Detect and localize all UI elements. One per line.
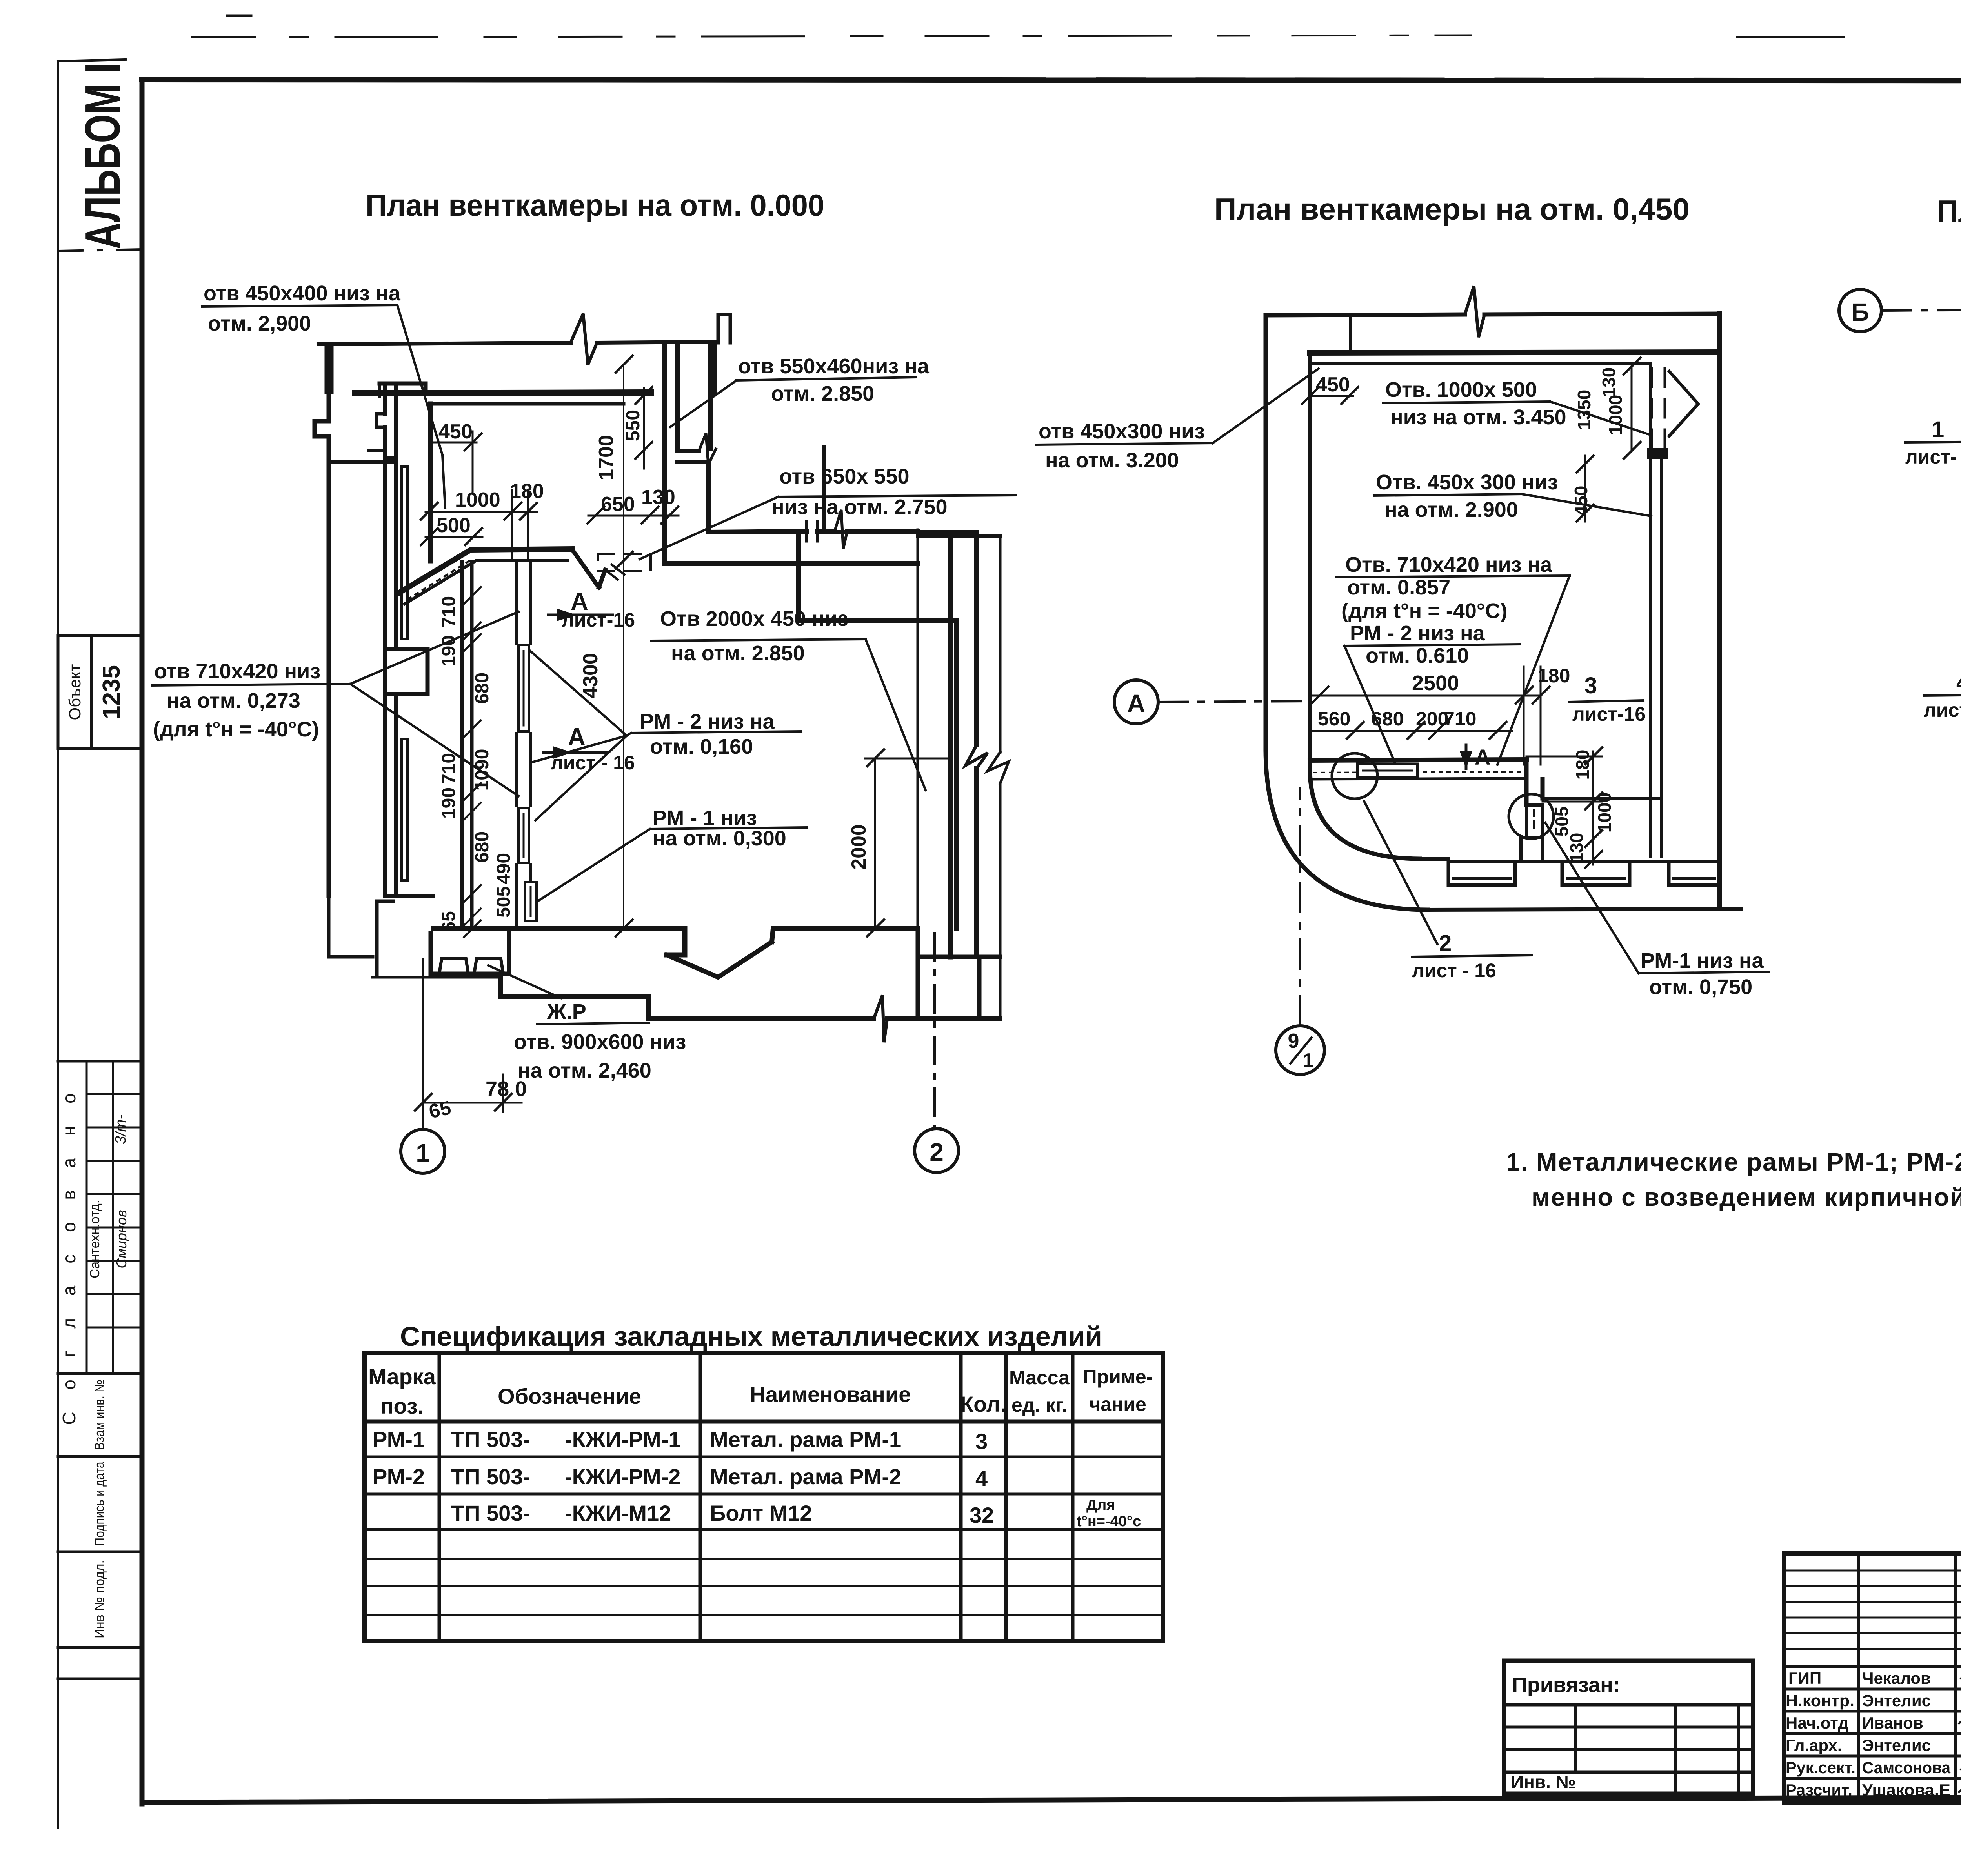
label 3 list-16 (1570, 673, 1646, 725)
vzam inv cell (58, 1455, 142, 1458)
svg-text:План венткамеры на отм. ~3,600: План венткамеры на отм. ~3,600 (1937, 194, 1961, 228)
svg-text:710: 710 (1444, 708, 1476, 730)
top wall inner face (1310, 363, 1650, 364)
bottom band lines (1420, 859, 1741, 910)
svg-text:Марка: Марка (368, 1364, 436, 1389)
svg-text:РМ-1: РМ-1 (373, 1427, 425, 1452)
grid circle 1 (401, 1129, 445, 1173)
plan 2: Plan ventkamery na otm. 0,450 (1037, 192, 1769, 1074)
grid circle A (1114, 680, 1158, 724)
detail circle 1 (1509, 794, 1554, 839)
svg-text:Масса: Масса (1009, 1367, 1070, 1389)
svg-text:А: А (1475, 745, 1490, 769)
svg-text:4: 4 (1956, 670, 1961, 695)
svg-text:1700: 1700 (595, 435, 618, 480)
signature table box (1784, 1553, 1961, 1802)
svg-text:500: 500 (437, 514, 471, 537)
upper right room top wall (678, 462, 708, 530)
svg-text:560: 560 (1318, 708, 1350, 730)
svg-text:РМ - 1 низ: РМ - 1 низ (653, 806, 757, 830)
svg-text:лист-16: лист-16 (562, 609, 635, 631)
left wall notch (377, 414, 385, 427)
svg-text:1090: 1090 (472, 749, 493, 791)
spec headers (368, 1364, 1153, 1418)
spec row 2 (373, 1464, 988, 1491)
svg-text:Спецификация закладных металли: Спецификация закладных металлических изд… (400, 1321, 1102, 1352)
top wall left end verticals (326, 344, 332, 393)
svg-text:отм. 2.850: отм. 2.850 (771, 382, 874, 405)
vertical dims right of detail (1526, 747, 1615, 868)
pilaster 3 (1669, 862, 1719, 885)
svg-text:3: 3 (975, 1429, 988, 1454)
long wall y1355 (708, 531, 918, 532)
svg-text:450: 450 (438, 420, 473, 443)
dim 780 (415, 1074, 527, 1123)
left margin stamps (58, 60, 142, 1679)
pilaster 1 (1448, 862, 1515, 885)
right wall outer thin line (999, 536, 1002, 1019)
upper right wall foot (678, 449, 699, 453)
svg-text:ТП 503-: ТП 503- (451, 1427, 530, 1452)
grid line 2 dashdot (933, 933, 936, 1129)
outer left sheet edge line (57, 63, 59, 1827)
flag triangle (1669, 371, 1698, 436)
grid circle B (1839, 289, 1881, 332)
svg-text:9: 9 (1288, 1030, 1299, 1053)
label otv 1000x500 (1383, 378, 1649, 434)
bottom left arc inner (1310, 769, 1420, 859)
svg-text:78 0: 78 0 (486, 1077, 527, 1101)
wall fold right of shelf (572, 549, 605, 587)
left wall window strip lower (402, 739, 407, 880)
svg-text:на отм. 2.900: на отм. 2.900 (1384, 498, 1518, 522)
svg-text:лист - 16: лист - 16 (551, 752, 635, 774)
zh r grille 1 (439, 959, 468, 974)
svg-text:ед. кг.: ед. кг. (1011, 1394, 1067, 1416)
right wall top cap (918, 534, 1000, 538)
top wall inner thick (1310, 352, 1719, 353)
svg-text:Самсонова: Самсонова (1862, 1758, 1951, 1777)
svg-text:отм. 0,160: отм. 0,160 (650, 735, 753, 758)
bottom left wall block (431, 933, 509, 974)
signature columns (1857, 1553, 1860, 1802)
dim 450 top left (1302, 373, 1358, 404)
svg-text:1235: 1235 (98, 665, 125, 719)
label otv 2000x450 (651, 607, 926, 790)
shelf hatch dots (408, 559, 473, 599)
label ZH R (488, 965, 686, 1082)
svg-text:680: 680 (472, 831, 493, 863)
svg-text:Иванов: Иванов (1862, 1714, 1923, 1732)
label RM-2 (1344, 622, 1520, 764)
label otv 710x420 (1336, 553, 1570, 765)
joint ticks on long wall (806, 522, 817, 541)
svg-text:лист-16: лист-16 (1572, 703, 1646, 725)
break on right wall (966, 745, 988, 769)
frame RM-2 plan detail (1357, 764, 1417, 777)
right inner wall lower (1543, 797, 1661, 800)
svg-text:поз.: поз. (380, 1394, 424, 1418)
svg-text:отв 710х420 низ: отв 710х420 низ (154, 660, 320, 683)
spec row 3 (451, 1497, 1141, 1530)
dim 650 130 (588, 486, 679, 524)
signature name rows (1784, 1667, 1961, 1778)
signature roles (1786, 1669, 1855, 1799)
top right dashed opening (1652, 369, 1665, 448)
svg-text:Инв. №: Инв. № (1511, 1772, 1576, 1792)
plan 1: Plan ventkamery na otm. 0.000 (152, 188, 1016, 1173)
bottom left arc outer (1266, 749, 1428, 910)
svg-text:710: 710 (438, 596, 459, 627)
svg-text:отв. 900х600 низ: отв. 900х600 низ (514, 1030, 686, 1054)
label otv 650x550 (640, 465, 1016, 559)
label 4 list-16 (1924, 670, 1961, 721)
svg-text:Взам инв. №: Взам инв. № (92, 1380, 107, 1450)
right wall inner face (917, 530, 919, 929)
svg-text:на отм. 0,300: на отм. 0,300 (653, 827, 786, 850)
svg-text:(для t°н = -40°С): (для t°н = -40°С) (153, 718, 319, 741)
label otv 450x300 left (1037, 369, 1319, 472)
svg-text:ГИП: ГИП (1788, 1669, 1821, 1687)
svg-text:Энтелис: Энтелис (1862, 1736, 1931, 1754)
svg-text:Кол.: Кол. (960, 1392, 1006, 1416)
column below frames (1521, 837, 1543, 862)
signature table small rows (1784, 1571, 1961, 1649)
dim 1000 180 (421, 480, 544, 561)
left wall window strip upper (402, 467, 407, 639)
shaft right wall segments (516, 561, 530, 643)
top wall lower face (431, 402, 624, 406)
svg-text:План венткамеры на отм. 0.000: План венткамеры на отм. 0.000 (366, 188, 824, 222)
door notch V (667, 929, 918, 977)
grid circle 9/1 (1276, 1026, 1324, 1074)
svg-text:1: 1 (1932, 417, 1944, 442)
left wall pilaster block (385, 649, 427, 694)
dim line 550 (643, 388, 645, 469)
break on duct foot (699, 433, 716, 465)
bottom long line (648, 1016, 1000, 1021)
dim 500 (421, 514, 482, 545)
svg-text:Отв. 710х420 низ на: Отв. 710х420 низ на (1345, 553, 1552, 576)
break on right wall (988, 752, 1009, 783)
svg-text:РМ - 2 низ на: РМ - 2 низ на (1350, 622, 1485, 645)
svg-text:отв 450х300 низ: отв 450х300 низ (1039, 420, 1205, 443)
dims 560 680 200 710 (1310, 708, 1512, 739)
spec header bottom line (365, 1420, 1163, 1424)
break on long wall (835, 510, 847, 549)
svg-text:лист- 16: лист- 16 (1924, 699, 1961, 721)
left wall foundation corner (377, 901, 393, 976)
svg-text:Обозначение: Обозначение (498, 1384, 641, 1409)
grid line 1 vertical (422, 960, 424, 1130)
note text (1506, 1148, 1961, 1211)
label otv 450x300 right (1374, 471, 1651, 522)
svg-text:Приме-: Приме- (1083, 1366, 1153, 1388)
svg-text:130: 130 (641, 486, 675, 509)
thin outer face line (373, 976, 500, 979)
label otv 450x400 (202, 282, 445, 508)
svg-text:4300: 4300 (579, 653, 602, 698)
svg-text:АЛЬБОМ I: АЛЬБОМ I (75, 63, 130, 249)
bottom right wall pieces (918, 929, 1000, 1019)
top right vertical dims (1571, 358, 1641, 522)
long wall lower face y1437 (665, 561, 918, 566)
svg-text:505: 505 (1552, 807, 1572, 837)
spec row 1 (373, 1427, 988, 1454)
svg-text:на отм. 2,460: на отм. 2,460 (518, 1059, 651, 1082)
svg-text:Гл.арх.: Гл.арх. (1786, 1736, 1842, 1754)
svg-text:1000: 1000 (1594, 793, 1615, 833)
svg-text:А: А (1127, 689, 1145, 718)
svg-text:РМ-1 низ на: РМ-1 низ на (1641, 949, 1764, 973)
svg-text:отм. 0,750: отм. 0,750 (1649, 975, 1752, 999)
signature squiggles (1959, 1667, 1961, 1794)
label RM-2 (530, 651, 801, 820)
svg-text:А: А (568, 723, 586, 751)
room left wall vertical (428, 404, 433, 561)
right wall outer (1717, 314, 1722, 907)
svg-text:лист - 16: лист - 16 (1412, 960, 1496, 982)
upper right wall vertical band (665, 343, 710, 562)
privyazan table (1504, 1661, 1753, 1794)
svg-text:130: 130 (1566, 833, 1587, 863)
soglasovano stamp area (58, 1060, 142, 1063)
right room vertical walls (956, 532, 977, 953)
rotated dims column a (438, 596, 514, 932)
svg-text:1: 1 (416, 1139, 430, 1167)
svg-text:650: 650 (601, 493, 635, 516)
shaft left wall (462, 562, 472, 929)
shaft inner dim line (471, 588, 473, 929)
left wall outer face far (315, 344, 329, 896)
tick on left edge top (227, 15, 251, 17)
svg-text:-КЖИ-РМ-1: -КЖИ-РМ-1 (565, 1427, 680, 1452)
top torn paper dashed line (192, 35, 1471, 37)
bottom wall of room (433, 929, 685, 955)
svg-text:490: 490 (493, 853, 514, 884)
svg-text:лист- 16: лист- 16 (1905, 446, 1961, 468)
svg-text:Метал. рама РМ-1: Метал. рама РМ-1 (710, 1427, 901, 1452)
svg-text:РМ-2: РМ-2 (373, 1464, 425, 1489)
label otv 550x460 (670, 354, 930, 427)
spec outer box (365, 1353, 1163, 1641)
top wall outer line (318, 342, 718, 344)
left wall outer face (383, 384, 387, 896)
svg-text:550: 550 (623, 410, 644, 441)
svg-text:на отм. 0,273: на отм. 0,273 (167, 689, 300, 713)
svg-text:Ушакова.Е: Ушакова.Е (1862, 1781, 1950, 1799)
svg-text:-КЖИ-М12: -КЖИ-М12 (565, 1501, 671, 1525)
svg-text:низ на отм. 3.450: низ на отм. 3.450 (1390, 405, 1566, 429)
bottom outer step (500, 977, 648, 1019)
svg-text:Для: Для (1086, 1497, 1115, 1513)
frame bottom border (142, 1796, 1961, 1802)
svg-text:чание: чание (1089, 1393, 1146, 1415)
svg-text:190: 190 (438, 787, 459, 819)
svg-text:Привязан:: Привязан: (1512, 1673, 1620, 1697)
svg-text:Отв. 1000х 500: Отв. 1000х 500 (1385, 378, 1537, 402)
center vertical dim line (623, 365, 624, 929)
right room walls (799, 532, 977, 620)
frame RM-2 upper in shaft (518, 645, 529, 731)
svg-text:отв 550х460низ на: отв 550х460низ на (738, 354, 930, 378)
svg-text:ТП 503-: ТП 503- (451, 1464, 530, 1489)
frame RM-1 plan detail (1526, 805, 1543, 837)
joint tick top wall (1349, 315, 1352, 353)
svg-text:менно с возведением кирпичной: менно с возведением кирпичной кладки. (1532, 1183, 1961, 1211)
detail circle 2 (1332, 753, 1377, 799)
svg-text:Б: Б (1851, 298, 1869, 326)
svg-text:680: 680 (1371, 708, 1404, 730)
dim 450 (431, 420, 482, 494)
left wall upper tick (369, 384, 385, 450)
svg-text:180: 180 (1537, 665, 1570, 687)
shaft dim ticks (464, 587, 481, 937)
top wall right end cap (713, 343, 717, 393)
frame RM-1 bottom in shaft (525, 882, 537, 921)
right wall main line (948, 536, 953, 957)
fold hatch (605, 565, 624, 580)
svg-text:Отв. 450х 300 низ: Отв. 450х 300 низ (1376, 471, 1558, 494)
plan 3: Plan ventkamery na otm. -3,600 (1839, 194, 1961, 983)
svg-text:отв 650х 550: отв 650х 550 (779, 465, 910, 488)
dashed opening 650x550 (598, 554, 651, 571)
svg-text:1. Металлические рамы РМ-1; РМ: 1. Металлические рамы РМ-1; РМ-2 устанав… (1506, 1148, 1961, 1176)
signature names (1862, 1669, 1951, 1799)
inv no podl cell (58, 1646, 142, 1649)
label RM-1 (537, 806, 807, 902)
svg-text:на отм. 2.850: на отм. 2.850 (671, 642, 805, 665)
svg-text:32: 32 (970, 1503, 994, 1527)
shelf wall diagonal (399, 549, 572, 593)
svg-text:2: 2 (1439, 931, 1452, 956)
svg-text:1000: 1000 (1605, 395, 1626, 435)
break symbol top wall (571, 314, 597, 365)
grid circle 2 (915, 1129, 959, 1172)
svg-text:отм. 2,900: отм. 2,900 (208, 312, 311, 335)
break bottom (874, 995, 887, 1042)
right inner channel (1650, 363, 1661, 857)
svg-text:Смирнов: Смирнов (113, 1210, 129, 1268)
top wall inner line (355, 393, 651, 393)
svg-text:Метал. рама РМ-2: Метал. рама РМ-2 (710, 1464, 901, 1489)
svg-text:2: 2 (930, 1138, 944, 1166)
svg-text:65: 65 (427, 1096, 453, 1122)
object 1235 stamp box (58, 636, 142, 749)
inner bottom wall (1310, 760, 1526, 760)
svg-text:t°н=-40°с: t°н=-40°с (1077, 1513, 1141, 1530)
svg-text:1350: 1350 (1574, 390, 1594, 430)
svg-text:Наименование: Наименование (750, 1382, 911, 1407)
svg-text:Подпись и дата: Подпись и дата (92, 1462, 107, 1546)
svg-text:Энтелис: Энтелис (1862, 1691, 1931, 1710)
svg-text:180: 180 (1572, 750, 1593, 780)
label RM-1 bottom (1545, 823, 1769, 999)
section mark A lower (544, 723, 635, 774)
svg-text:-КЖИ-РМ-2: -КЖИ-РМ-2 (565, 1464, 680, 1489)
dim 2000 vertical (848, 749, 950, 936)
svg-text:Болт М12: Болт М12 (710, 1501, 812, 1525)
left wall inner (1308, 353, 1312, 769)
left exterior wall top cap (380, 384, 426, 393)
label otv 710x420 left (152, 612, 518, 796)
svg-text:низ на отм. 2.750: низ на отм. 2.750 (771, 495, 947, 519)
svg-text:отв 450х400 низ на: отв 450х400 низ на (204, 282, 401, 305)
svg-text:Нач.отд: Нач.отд (1786, 1714, 1848, 1732)
top wall outer line (1266, 314, 1719, 315)
spec column lines (438, 1353, 441, 1641)
specification table (365, 1321, 1163, 1641)
left wall outer (1264, 315, 1268, 749)
section A arrow small (1460, 745, 1490, 769)
svg-text:отм. 0.610: отм. 0.610 (1366, 644, 1469, 667)
spec row lines (365, 1456, 1163, 1458)
svg-text:Объект: Объект (65, 664, 84, 720)
svg-text:2500: 2500 (1412, 671, 1459, 695)
svg-text:Ж.Р: Ж.Р (547, 1000, 586, 1023)
label 2 list-16 (1364, 801, 1532, 982)
svg-text:Разсчит.: Разсчит. (1786, 1781, 1852, 1799)
svg-text:190: 190 (438, 635, 459, 667)
section mark A upper (548, 588, 635, 631)
podpis i data cell (58, 1551, 142, 1553)
svg-text:ТП 503-: ТП 503- (451, 1501, 530, 1525)
svg-text:680: 680 (472, 673, 493, 704)
title block (1504, 1553, 1961, 1802)
bottom wall lower face hatched (1310, 778, 1526, 779)
svg-text:710: 710 (438, 753, 459, 784)
left wall foundation far (329, 896, 373, 957)
svg-text:Н.контр.: Н.контр. (1786, 1691, 1854, 1710)
svg-text:Сантехн.отд.: Сантехн.отд. (87, 1200, 102, 1278)
frame top border (142, 80, 1961, 81)
svg-text:505: 505 (493, 886, 514, 918)
svg-text:1000: 1000 (455, 489, 500, 511)
svg-text:План венткамеры на отм. 0,450: План венткамеры на отм. 0,450 (1214, 192, 1690, 226)
svg-text:Рук.сект.: Рук.сект. (1786, 1758, 1855, 1777)
top wall right stub (718, 314, 730, 343)
label 1 list-16 (1905, 417, 1961, 468)
left wall inner face (385, 384, 433, 896)
svg-text:130: 130 (1599, 367, 1619, 398)
svg-text:Чекалов: Чекалов (1862, 1669, 1931, 1687)
dim 2500 180 (1310, 665, 1570, 765)
left wall horizontal joint (329, 460, 393, 464)
zh r grille 2 (474, 959, 503, 974)
svg-text:180: 180 (510, 480, 544, 503)
frame left border (140, 80, 145, 1804)
svg-text:4: 4 (975, 1466, 988, 1491)
frame RM-2 lower in shaft (518, 808, 529, 863)
svg-text:3: 3 (1584, 673, 1597, 698)
svg-text:450: 450 (1316, 373, 1350, 396)
tick under album label (58, 60, 126, 61)
svg-text:отм. 0.857: отм. 0.857 (1347, 576, 1450, 599)
svg-text:3/m-: 3/m- (113, 1114, 129, 1144)
svg-text:(для t°н = -40°С): (для t°н = -40°С) (1341, 599, 1507, 623)
pilaster 2 (1562, 862, 1630, 885)
svg-text:на отм. 3.200: на отм. 3.200 (1045, 449, 1179, 472)
svg-text:1: 1 (1303, 1049, 1314, 1072)
svg-text:РМ - 2 низ на: РМ - 2 низ на (640, 710, 775, 733)
svg-text:2000: 2000 (848, 824, 870, 870)
break symbol top (1465, 286, 1484, 337)
svg-text:Инв № подл.: Инв № подл. (92, 1560, 107, 1638)
step down right (1526, 760, 1543, 805)
